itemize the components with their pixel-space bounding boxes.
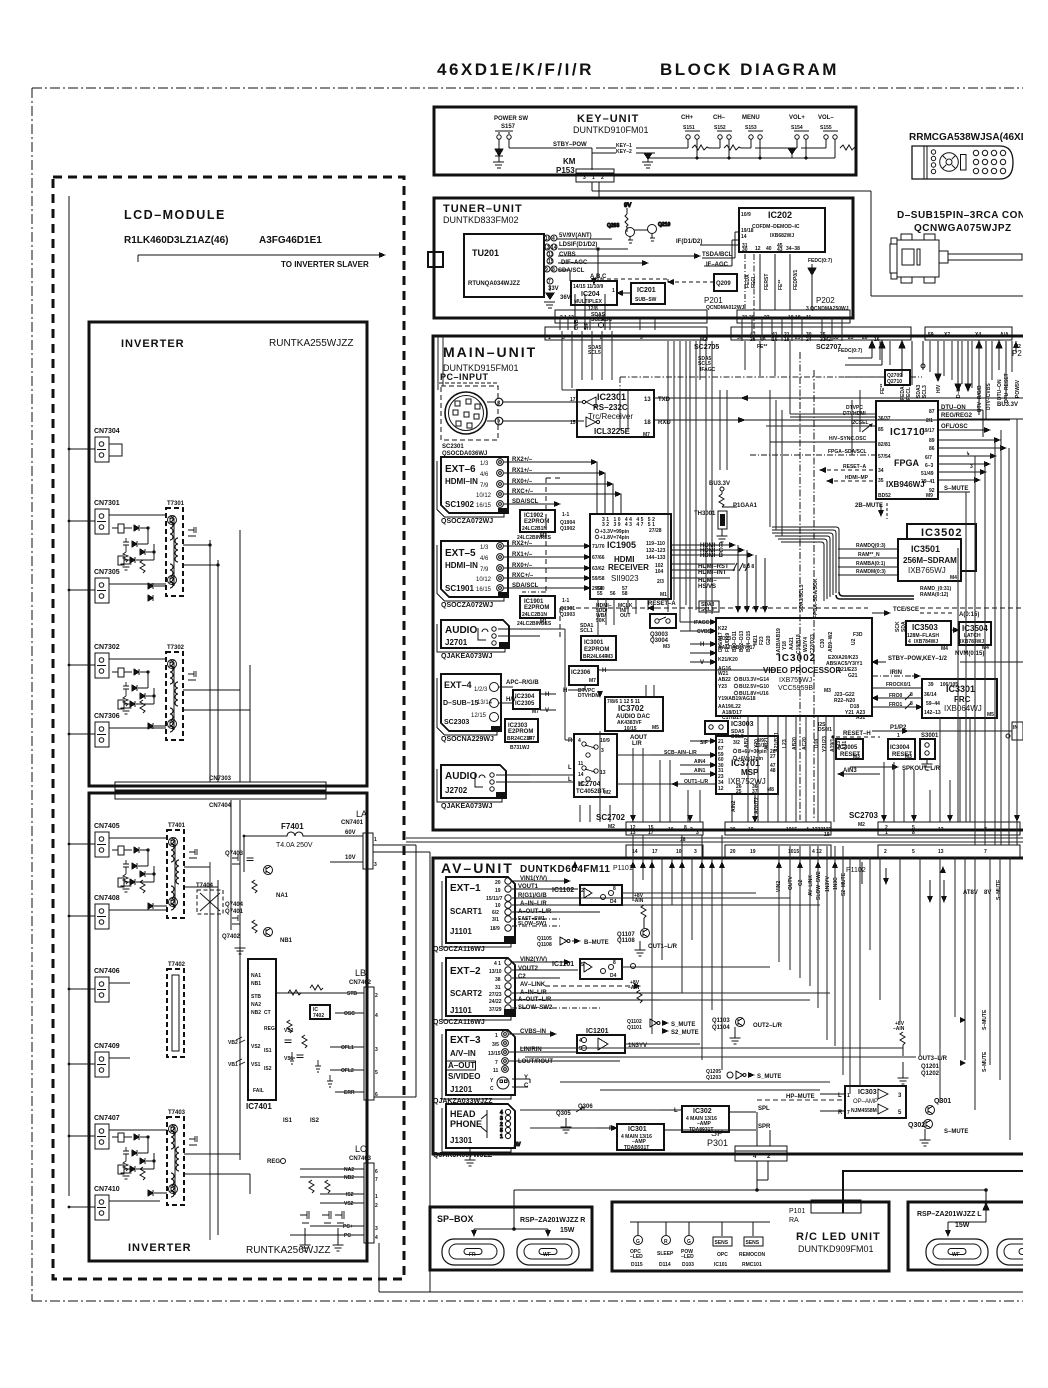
svg-text:–AIN: –AIN (632, 898, 644, 904)
speaker WF (517, 1239, 579, 1265)
svg-text:REG: REG (267, 1159, 280, 1165)
svg-text:86: 86 (929, 446, 935, 452)
svg-text:4: 4 (578, 738, 581, 744)
2B-MUTE arrow (855, 503, 887, 519)
svg-text:C: C (524, 1083, 529, 1089)
svg-text:FR: FR (469, 1252, 476, 1258)
dashed sda bus near EXT boxes (522, 478, 561, 592)
svg-text:CN7306: CN7306 (94, 713, 120, 720)
svg-text:18: 18 (644, 420, 651, 426)
svg-text:FROCK0/1: FROCK0/1 (886, 682, 911, 688)
svg-text:OPC: OPC (717, 1252, 728, 1258)
svg-text:57/54: 57/54 (878, 454, 891, 460)
svg-text:56: 56 (610, 591, 616, 597)
svg-text:RAMDM(0:3): RAMDM(0:3) (856, 569, 886, 575)
svg-text:2: 2 (581, 888, 584, 894)
svg-text:13: 13 (544, 245, 550, 251)
connector CN7410 (68, 1186, 160, 1220)
svg-text:IC1102: IC1102 (552, 887, 574, 894)
svg-text:CN7405: CN7405 (94, 823, 120, 830)
svg-text:3/5: 3/5 (492, 1042, 499, 1048)
svg-text:15W: 15W (560, 1227, 575, 1234)
down arrows into SC2702 strip (630, 815, 1020, 822)
P1101/P1102 strips at AV top (626, 845, 1020, 857)
svg-text:S2_MUTE: S2_MUTE (671, 1030, 699, 1036)
parts cluster 1 (112, 524, 155, 570)
svg-text:RAMDQ(0:3): RAMDQ(0:3) (856, 543, 886, 549)
svg-text:BU3.3V=G14: BU3.3V=G14 (739, 677, 769, 683)
svg-text:LB: LB (355, 968, 366, 978)
svg-text:AIN1: AIN1 (694, 768, 706, 774)
+8V AIN resistor EXT1 (632, 893, 646, 928)
+8V AIN EXT2 (628, 964, 642, 1004)
svg-text:Y21: Y21 (845, 710, 854, 716)
IC302 MAIN AMP L (660, 1106, 770, 1133)
svg-text:IXB064WJ: IXB064WJ (944, 704, 982, 713)
connector CN7408 (68, 895, 167, 929)
EXT-5 HDMI-IN SC1901 (441, 541, 508, 609)
svg-text:59–44: 59–44 (926, 701, 940, 707)
transformer T7402 (spare) (167, 962, 186, 1057)
svg-text:BU2.5V=G10: BU2.5V=G10 (739, 684, 769, 690)
svg-text:IC3005: IC3005 (838, 745, 858, 751)
svg-text:4: 4 (579, 1038, 582, 1044)
svg-text:H: H (545, 692, 549, 698)
svg-text:OFL/OSC: OFL/OSC (941, 424, 968, 430)
svg-text:J1101: J1101 (450, 927, 472, 936)
svg-text:23: 23 (848, 335, 854, 341)
svg-text:CN7409: CN7409 (94, 1043, 120, 1050)
svg-text:CN7403: CN7403 (349, 1156, 372, 1162)
connector CN7304 (68, 428, 122, 462)
svg-text:13: 13 (600, 770, 606, 776)
svg-text:T7404: T7404 (196, 883, 214, 889)
svg-text:PHONE: PHONE (450, 1119, 482, 1129)
svg-text:21: 21 (718, 739, 724, 745)
svg-text:5: 5 (375, 1070, 378, 1076)
Q209 box (668, 274, 737, 291)
svg-text:RUNTKA255WJZZ: RUNTKA255WJZZ (269, 338, 353, 349)
svg-text:M3: M3 (824, 688, 831, 694)
svg-text:SP–BOX: SP–BOX (437, 1214, 474, 1224)
svg-text:M7: M7 (589, 678, 596, 684)
svg-text:13/10: 13/10 (489, 969, 502, 975)
svg-text:IC204: IC204 (581, 291, 600, 298)
svg-text:IC1201: IC1201 (586, 1028, 609, 1035)
svg-text:WF: WF (952, 1252, 960, 1258)
svg-text:R: R (609, 1126, 614, 1132)
svg-text:SCART1: SCART1 (450, 907, 483, 916)
svg-text:132–123: 132–123 (646, 548, 666, 554)
svg-text:15: 15 (548, 259, 554, 265)
svg-text:OUT2–L/R: OUT2–L/R (753, 1023, 783, 1029)
svg-text:LCD–MODULE: LCD–MODULE (124, 208, 226, 222)
svg-text:24: 24 (806, 337, 812, 343)
svg-text:CN7407: CN7407 (94, 1115, 120, 1122)
svg-text:MSP: MSP (741, 768, 759, 777)
svg-text:13: 13 (938, 827, 944, 833)
svg-text:+6V=12pin: +6V=12pin (738, 756, 763, 762)
svg-text:T4.0A 250V: T4.0A 250V (276, 842, 313, 849)
connector CN7306 (68, 713, 166, 747)
connector KM P153 (556, 157, 614, 182)
svg-text:1/3: 1/3 (480, 545, 489, 551)
svg-text:FECL: FECL (906, 387, 912, 400)
svg-text:DTV–CVBS: DTV–CVBS (986, 383, 992, 410)
svg-text:16/15: 16/15 (476, 587, 492, 593)
svg-text:27: 27 (770, 754, 776, 760)
IC1101 (552, 959, 622, 979)
svg-text:H: H (602, 668, 606, 674)
svg-text:50K: 50K (596, 618, 606, 624)
svg-text:34–38: 34–38 (786, 246, 800, 252)
svg-text:19: 19 (495, 888, 501, 894)
svg-text:SCL3: SCL3 (922, 385, 928, 398)
sdram bus labels (838, 543, 898, 575)
svg-text:142–13: 142–13 (924, 710, 941, 716)
EXT-6 HDMI-IN SC1902 (441, 457, 508, 525)
svg-text:24LC2B1N: 24LC2B1N (522, 612, 547, 618)
svg-text:IC302: IC302 (693, 1108, 712, 1115)
flash/latch row (872, 607, 979, 632)
svg-text:IC3501: IC3501 (911, 544, 940, 554)
svg-text:MAIN–UNIT: MAIN–UNIT (443, 344, 537, 360)
svg-text:1: 1 (897, 733, 900, 739)
svg-text:10/12: 10/12 (476, 577, 492, 583)
svg-text:–AIN: –AIN (893, 1026, 905, 1032)
svg-text:IXB755WJ: IXB755WJ (779, 677, 812, 684)
svg-text:A,B,C: A,B,C (590, 274, 607, 280)
svg-text:20: 20 (862, 335, 868, 341)
svg-text:P1102: P1102 (846, 867, 866, 874)
IC3003 switch (705, 721, 832, 740)
IC3001 E2PROM (581, 636, 616, 660)
IC1901 E2PROM (517, 596, 575, 627)
svg-text:IC3004: IC3004 (890, 745, 910, 751)
inverter feed bus (68, 196, 70, 1196)
wire TO INVERTER SLAVER (138, 254, 385, 256)
svg-text:IC301: IC301 (628, 1126, 647, 1133)
svg-text:DTVHDM: DTVHDM (578, 693, 599, 699)
A,B,C dashed select line (590, 274, 668, 284)
svg-text:63/62: 63/62 (592, 566, 605, 572)
wire mesh: main unit center verticals to SC2702/SC2703 (580, 716, 950, 822)
IC3502 sdram outline (907, 524, 976, 571)
svg-text:W3/Y4: W3/Y4 (803, 637, 809, 652)
svg-text:82/81: 82/81 (878, 442, 891, 448)
svg-text:11: 11 (548, 252, 554, 258)
svg-text:–AIN: –AIN (628, 985, 640, 991)
svg-text:14: 14 (551, 245, 557, 251)
svg-text:12/15: 12/15 (471, 713, 487, 719)
svg-text:FE**: FE** (880, 384, 886, 394)
svg-text:CN7305: CN7305 (94, 569, 120, 576)
IC1905 HDMI RECEIVER (590, 514, 671, 599)
svg-text:25: 25 (750, 337, 756, 343)
svg-text:M7: M7 (532, 709, 539, 715)
svg-text:2: 2 (690, 827, 693, 833)
svg-text:FRC: FRC (954, 695, 971, 704)
svg-text:P1101: P1101 (613, 865, 633, 872)
svg-text:6/2: 6/2 (492, 910, 499, 916)
svg-text:FPGA–SDA/SOK: FPGA–SDA/SOK (813, 578, 819, 618)
wire bus: full-width rails between MAIN and AV (406, 838, 1023, 842)
svg-text:FPGA–SDA/SCL: FPGA–SDA/SCL (828, 449, 867, 455)
connector CN7406 (68, 968, 130, 1002)
IC1201 (577, 1028, 647, 1053)
Q1205 Q1203 mute (706, 1069, 781, 1081)
svg-text:V: V (700, 660, 704, 666)
svg-text:E2PROM: E2PROM (508, 729, 533, 735)
svg-text:IC1905: IC1905 (607, 540, 636, 550)
svg-text:8: 8 (613, 886, 616, 892)
svg-text:FERST: FERST (764, 274, 770, 290)
svg-text:IC202: IC202 (768, 210, 792, 220)
svg-text:CN7406: CN7406 (94, 968, 120, 975)
EXT-2 SCART2 (433, 958, 515, 1026)
svg-text:M4: M4 (941, 646, 948, 652)
svg-text:IC1710: IC1710 (890, 427, 925, 438)
transformer T7302 (166, 645, 196, 740)
svg-text:PC–: PC– (344, 1233, 354, 1239)
svg-text:M5: M5 (987, 712, 994, 718)
svg-text:1-1: 1-1 (562, 598, 569, 604)
parts cluster 3 (112, 846, 155, 892)
svg-text:IXB752WJ: IXB752WJ (728, 777, 766, 786)
CN7303 / CN7404 bridge strip (115, 776, 326, 809)
svg-text:17: 17 (648, 830, 654, 836)
svg-text:1: 1 (374, 837, 377, 843)
svg-text:NB2: NB2 (344, 1175, 354, 1181)
tuner wires (544, 239, 700, 330)
svg-text:SC2705: SC2705 (694, 344, 719, 351)
svg-text:106/105: 106/105 (940, 682, 958, 688)
svg-text:SENS: SENS (715, 1240, 729, 1246)
svg-text:4: 4 (908, 639, 911, 645)
svg-text:J2702: J2702 (445, 786, 468, 795)
svg-text:IC2306: IC2306 (571, 670, 591, 676)
EXT-1 signals (512, 876, 660, 927)
svg-text:S3001: S3001 (921, 733, 939, 739)
svg-text:Q1202: Q1202 (921, 1071, 940, 1077)
svg-text:1/2/3: 1/2/3 (474, 687, 488, 693)
SPKOUT arrow (850, 766, 941, 772)
svg-text:S–MUTE: S–MUTE (944, 486, 968, 492)
IC2704 TC4052BT (568, 734, 617, 797)
AUDIO J2701 (441, 620, 540, 660)
svg-text:9: 9 (545, 267, 548, 273)
svg-text:15/11/7: 15/11/7 (486, 896, 503, 902)
port box slab outlines (437, 461, 505, 802)
SC2703 strip (849, 811, 1020, 836)
svg-text:Q1903: Q1903 (560, 612, 575, 618)
svg-text:P2: P2 (1012, 349, 1022, 358)
svg-text:34: 34 (878, 468, 884, 474)
svg-text:13/15: 13/15 (488, 1051, 501, 1057)
transformer T7403 (167, 1110, 197, 1205)
svg-text:4 1: 4 1 (494, 961, 501, 967)
parts cluster 2 (112, 668, 155, 714)
svg-text:DUNTKD909FM01: DUNTKD909FM01 (798, 1244, 874, 1254)
svg-text:–LED: –LED (630, 1254, 643, 1260)
svg-text:2: 2 (498, 420, 501, 426)
svg-text:3/2: 3/2 (733, 740, 740, 746)
svg-text:4 12: 4 12 (812, 849, 822, 855)
svg-text:IC3503: IC3503 (912, 623, 938, 632)
svg-text:NA1: NA1 (251, 973, 261, 979)
svg-text:SUB–SW: SUB–SW (635, 297, 657, 303)
svg-text:IC2305: IC2305 (515, 701, 535, 707)
svg-text:RAMBA(0:1): RAMBA(0:1) (856, 561, 886, 567)
svg-text:6/7: 6/7 (925, 455, 932, 461)
svg-text:1N3YV: 1N3YV (825, 875, 831, 892)
svg-text:VOL–: VOL– (818, 115, 834, 121)
svg-text:HS/VS: HS/VS (698, 584, 716, 590)
wire mesh: crossing into AV unit (633, 835, 1010, 1140)
transformer T7401 (167, 823, 197, 918)
svg-text:3: 3 (583, 175, 586, 181)
TUNER-UNIT box (434, 198, 853, 318)
svg-text:71/70: 71/70 (592, 544, 605, 550)
svg-text:36V: 36V (560, 295, 571, 301)
svg-text:59/58: 59/58 (592, 576, 605, 582)
heavy RA line to P101 (843, 1171, 1048, 1213)
svg-text:VS2: VS2 (251, 1044, 261, 1050)
svg-text:J1301: J1301 (450, 1136, 473, 1145)
svg-text:C: C (490, 1086, 494, 1092)
svg-text:QJAKJA007WJZZ: QJAKJA007WJZZ (433, 1152, 493, 1159)
svg-text:1015: 1015 (786, 827, 797, 833)
svg-text:REMOCON: REMOCON (739, 1252, 766, 1258)
svg-text:D115: D115 (631, 1262, 643, 1268)
svg-text:FEDC(0:7): FEDC(0:7) (838, 348, 863, 354)
svg-text:CN7404: CN7404 (209, 803, 232, 809)
inverter2 long verticals (184, 800, 250, 1240)
svg-text:4/6: 4/6 (480, 472, 489, 478)
svg-text:EXT–3: EXT–3 (450, 1035, 481, 1046)
svg-text:Y19/AB19/AG18: Y19/AB19/AG18 (718, 696, 756, 702)
svg-text:SPKOUT_L/R: SPKOUT_L/R (902, 766, 941, 772)
svg-text:M1: M1 (499, 593, 506, 599)
svg-text:T7403: T7403 (168, 1110, 186, 1116)
svg-text:67/66: 67/66 (592, 555, 605, 561)
svg-text:↳: ↳ (966, 451, 970, 457)
svg-text:ICL3225E: ICL3225E (594, 427, 631, 436)
svg-text:QSOCNA229WJ: QSOCNA229WJ (441, 736, 494, 743)
svg-text:Q1201: Q1201 (921, 1064, 940, 1070)
svg-text:OSC: OSC (344, 1011, 355, 1017)
svg-text:QSOCZA116WJ: QSOCZA116WJ (433, 1019, 485, 1026)
title (437, 60, 839, 79)
svg-text:AV–LINK: AV–LINK (520, 982, 546, 988)
svg-text:S2–MUTE: S2–MUTE (841, 872, 847, 896)
svg-text:A3FG46D1E1: A3FG46D1E1 (259, 235, 322, 246)
svg-text:P1/P2: P1/P2 (890, 725, 907, 731)
svg-text:SLOW–SW2: SLOW–SW2 (816, 871, 822, 900)
svg-text:SCL1: SCL1 (580, 628, 593, 634)
svg-text:RS–232C: RS–232C (593, 403, 628, 412)
svg-text:–LED: –LED (681, 1254, 694, 1260)
Q1201 Q1202 OUT3 (893, 1009, 988, 1084)
svg-text:VB2: VB2 (228, 1040, 238, 1046)
svg-text:QSOCZA072WJ: QSOCZA072WJ (441, 602, 493, 609)
svg-text:55: 55 (597, 591, 603, 597)
svg-text:POWER SW: POWER SW (494, 116, 528, 122)
transistors Q203 Q210 (607, 203, 670, 243)
svg-text:1/3: 1/3 (480, 461, 489, 467)
IC301 MAIN AMP R (596, 1124, 771, 1151)
IC3501 256M-SDRAM (898, 539, 961, 581)
svg-text:RAMA(0:12): RAMA(0:12) (920, 592, 949, 598)
SP P301 connector (707, 1112, 787, 1161)
wire P153 to D-SUB converter (592, 182, 1023, 296)
svg-text:AC20: AC20 (802, 737, 808, 750)
svg-text:8: 8 (613, 960, 616, 966)
svg-text:4: 4 (375, 1235, 378, 1241)
svg-text:S152: S152 (714, 125, 726, 131)
svg-text:P301: P301 (707, 1138, 728, 1148)
svg-text:Q7404: Q7404 (225, 902, 244, 908)
svg-text:8: 8 (912, 830, 915, 836)
svg-text:59: 59 (928, 332, 934, 338)
svg-text:7: 7 (984, 849, 987, 855)
svg-text:3/1: 3/1 (492, 917, 499, 923)
IC7401 support parts (228, 1020, 333, 1087)
svg-text:FEDC(0:7): FEDC(0:7) (808, 258, 833, 264)
svg-text:CVBS: CVBS (559, 252, 576, 258)
svg-text:FEDP0/1: FEDP0/1 (793, 269, 799, 290)
svg-text:APC–R/G/B: APC–R/G/B (506, 680, 539, 686)
svg-text:7402: 7402 (313, 1013, 324, 1019)
svg-text:OUTV: OUTV (788, 875, 794, 890)
svg-text:X4: X4 (975, 332, 981, 338)
svg-text:REG/REG2: REG/REG2 (941, 413, 973, 419)
IC1710 right labels (938, 402, 1023, 492)
svg-text:EXT–5: EXT–5 (445, 548, 476, 559)
svg-text:RXD: RXD (658, 420, 671, 426)
svg-text:LDSIF(D1/D2): LDSIF(D1/D2) (559, 242, 597, 248)
svg-text:3: 3 (696, 830, 699, 836)
svg-text:43: 43 (777, 247, 783, 253)
svg-text:DUNTKD910FM01: DUNTKD910FM01 (573, 125, 649, 135)
svg-text:39: 39 (928, 682, 934, 688)
SC2702 strip (596, 813, 832, 843)
rotated CVBS SIF AGC labels (574, 312, 613, 330)
svg-text:5: 5 (579, 1046, 582, 1052)
wire mesh: AV horizontals (520, 893, 916, 1128)
svg-text:SC1901: SC1901 (445, 584, 474, 593)
svg-text:85: 85 (878, 427, 884, 433)
svg-text:T7401: T7401 (168, 823, 186, 829)
LA-LB external wires (373, 845, 1023, 1292)
svg-text:K22: K22 (718, 626, 727, 632)
svg-text:Trc/Receiver: Trc/Receiver (588, 412, 633, 421)
svg-text:2/3: 2/3 (657, 579, 664, 585)
svg-text:R: R (568, 738, 573, 744)
IS1 IS2 labels (267, 1118, 320, 1165)
svg-text:SCART2: SCART2 (450, 989, 483, 998)
svg-text:7: 7 (495, 1060, 498, 1066)
svg-text:6: 6 (375, 1169, 378, 1175)
svg-text:OFL1: OFL1 (341, 1045, 354, 1051)
svg-text:CN7410: CN7410 (94, 1186, 120, 1193)
svg-text:Q1108: Q1108 (537, 942, 552, 948)
svg-text:D114: D114 (659, 1262, 671, 1268)
tuner pin circles (544, 235, 557, 285)
connector CN7305 (68, 569, 166, 603)
Q305 Q306 (556, 1104, 593, 1133)
svg-text:RTUNQA034WJZZ: RTUNQA034WJZZ (468, 281, 520, 287)
